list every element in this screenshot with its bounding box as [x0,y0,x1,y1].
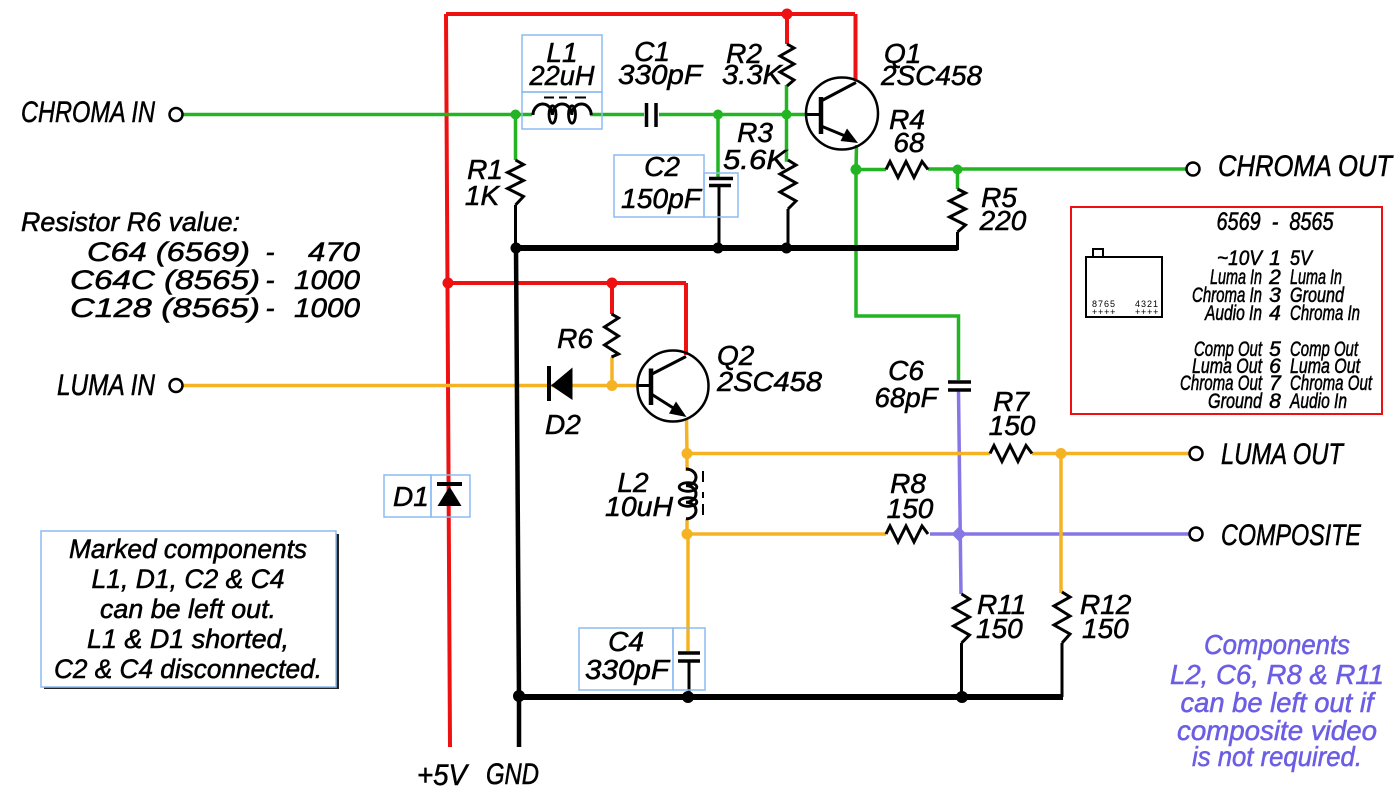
svg-text:6569 - 8565: 6569 - 8565 [1217,208,1334,236]
capacitor C6 plates [948,382,971,390]
svg-text:8: 8 [1269,390,1281,413]
svg-text:LUMA OUT: LUMA OUT [1221,438,1345,471]
wire R1 to ground bus [514,205,517,248]
svg-text:C64 (6569): C64 (6569) [87,237,250,267]
inductor L1 small loops [549,106,556,123]
svg-text:++++: ++++ [1092,307,1116,317]
wire R12 to ground bus corner [1061,643,1064,697]
svg-text:330pF: 330pF [618,59,704,90]
wire emitter junction to R7 [687,452,990,456]
wire +5V mid horizontal [448,281,686,285]
svg-text:3.3K: 3.3K [722,59,783,90]
ground bus upper [514,245,958,251]
svg-text:2SC458: 2SC458 [880,60,982,91]
svg-text:GND: GND [486,758,539,791]
svg-text:10uH: 10uH [605,491,674,522]
svg-text:D1: D1 [393,481,429,512]
wire drop to R1 [514,115,518,161]
wire emitter junction to R4 [856,168,886,172]
junction chroma out/R5 [953,165,963,175]
wire R7 to luma out [1032,452,1190,456]
C4 label box [579,628,673,690]
svg-text:330pF: 330pF [585,654,671,685]
pinout box [1071,207,1382,414]
svg-text:Ground: Ground [1208,390,1263,413]
D1 symbol box [431,475,470,517]
transistor Q2 emitter lead [652,395,678,412]
svg-text:68: 68 [893,127,925,158]
svg-text:D2: D2 [545,409,581,440]
svg-text:can be left out if: can be left out if [1181,687,1377,718]
inductor L1 coil [533,104,591,115]
junction chroma/C2 [713,110,723,120]
svg-text:1000: 1000 [294,293,360,323]
svg-text:R6: R6 [557,323,593,354]
transistor Q2 base bar [649,369,654,406]
wire R6 bottom to luma line [610,357,614,386]
svg-text:1000: 1000 [294,265,360,295]
wire C6 bottom down to R11 [959,391,962,594]
junction ground rail lower [513,690,525,702]
svg-text:-: - [266,293,275,323]
ground vertical rail [516,248,519,697]
svg-text:1K: 1K [465,180,501,211]
svg-text:C4: C4 [608,626,644,657]
transistor Q1 emitter lead [821,126,850,138]
capacitor C2 plates [709,179,733,186]
svg-text:Chroma In: Chroma In [1290,302,1360,325]
resistor R4 [886,162,928,178]
svg-text:L1 & D1 shorted,: L1 & D1 shorted, [87,624,289,654]
svg-text:CHROMA IN: CHROMA IN [21,96,155,129]
junction ground/R3 [781,243,792,254]
terminal LUMA OUT [1190,447,1203,460]
svg-text:is not required.: is not required. [1192,741,1362,772]
transistor Q1 base bar [819,97,824,134]
svg-text:5.6K: 5.6K [723,144,788,175]
inductor L2 core dashes [702,471,704,515]
svg-text:150: 150 [887,493,934,524]
svg-text:+5V: +5V [417,759,470,792]
wire drop to R5 [956,170,960,190]
BLACK-PARTS [170,44,1203,747]
junction +5V rail mid [443,278,454,289]
junction Q2 emitter node [682,448,693,459]
junction +5V/R6 [607,278,618,289]
svg-text:Marked components: Marked components [69,534,307,564]
junction composite diamond [952,527,967,542]
diode D1 cathode bar [437,482,462,486]
svg-text:22uH: 22uH [529,60,596,91]
junction luma/R6/D2 [607,380,618,391]
WIRES-RED [446,14,856,747]
junction L2 bottom node [682,529,693,540]
junction luma out/R12 [1056,448,1067,459]
junction chroma/R2-R3 [782,110,792,120]
svg-text:2SC458: 2SC458 [716,366,822,397]
resistor R11 [954,594,970,643]
wire L2 bottom to junction [685,519,689,534]
transistor Q2 body [638,351,709,422]
terminal COMPOSITE [1190,528,1203,541]
transistor Q2 emitter arrow [669,402,687,418]
svg-text:CHROMA OUT: CHROMA OUT [1218,150,1394,183]
svg-text:150: 150 [989,410,1036,441]
diode D2 cathode bar [547,366,551,401]
svg-text:C2: C2 [644,151,680,182]
wire +5V left vertical rail [446,14,450,747]
WIRES-PURPLE [930,391,1190,594]
junction +5V/R2 [782,9,793,20]
inductor L2 coil [686,469,696,519]
svg-text:LUMA IN: LUMA IN [57,369,155,402]
resistor R3 [780,160,796,209]
transistor Q2 collector lead [652,357,686,375]
WIRES-GREEN [183,85,1187,380]
ground bus lower [517,694,1063,700]
transistor Q1 collector lead [821,83,856,102]
inductor L1 core dashes [544,97,586,99]
inductor L2 small loops [679,483,697,492]
svg-text:150: 150 [976,613,1023,644]
wire L1 to C1 [590,113,644,117]
svg-text:68pF: 68pF [875,382,940,413]
wire Q1 emitter down [854,145,858,170]
wire C1 to Q1 base [659,113,807,117]
transistor Q1 base lead [806,113,819,116]
DIN connector body [1086,257,1162,317]
BOXES [384,35,738,690]
DIN connector notch [1093,249,1103,257]
svg-text:++++: ++++ [1135,307,1159,317]
svg-text:C2 & C4 disconnected.: C2 & C4 disconnected. [54,654,322,684]
L1 label box [522,35,602,92]
wire junction down to C4 [686,534,690,651]
svg-text:L2, C6, R8 & R11: L2, C6, R8 & R11 [1170,659,1384,690]
junction ground/C4 [682,691,694,703]
wire C4 to ground bus [688,661,691,697]
svg-text:Components: Components [1204,629,1350,660]
note box shadow [44,534,339,689]
transistor Q2 base lead [637,384,649,387]
svg-text:Audio In: Audio In [1289,390,1347,413]
junction ground/C2 [713,243,724,254]
wire R5 to ground bus [956,232,959,250]
svg-text:C64C (8565): C64C (8565) [70,265,260,295]
resistor R2 [780,44,794,86]
terminal CHROMA OUT [1187,163,1200,176]
svg-text:-: - [266,237,275,267]
wire drop to C2 [716,115,720,178]
wire R3 to ground bus [787,209,790,248]
transistor Q1 emitter arrow [841,129,859,144]
ground stub below bus [517,697,522,747]
C4 symbol box [673,628,705,690]
svg-text:Resistor R6 value:: Resistor R6 value: [21,207,240,237]
wire R2 bottom to R3 top [787,85,789,160]
wire junction to R8 [687,532,886,536]
wire C2 to ground bus [718,186,721,248]
wire +5V to Q2 collector [684,283,688,355]
wire composite line from R8 to terminal [930,532,1190,536]
junction ground/R11 [956,691,968,703]
wire luma out junction down to R12 [1059,454,1063,594]
diode D2 body [551,368,573,401]
wire luma in to Q2 base [183,384,637,388]
svg-text:470: 470 [308,237,360,267]
C2 label box [614,155,704,217]
wire R11 to ground bus [960,643,963,697]
svg-text:COMPOSITE: COMPOSITE [1221,519,1362,552]
resistor R8 [886,526,928,542]
C2 symbol box [704,173,738,217]
svg-text:can be left out.: can be left out. [100,594,276,624]
svg-text:150: 150 [1082,613,1129,644]
wire Q2 emitter down [685,419,689,454]
svg-text:150pF: 150pF [621,183,703,214]
junction Q1 emitter node [851,164,862,175]
svg-text:220: 220 [979,205,1027,236]
resistor R12 [1054,592,1070,643]
L1 symbol box [522,92,602,129]
D1 label box [384,475,431,517]
svg-text:C128 (8565): C128 (8565) [70,293,260,323]
diode D1 body [438,487,462,507]
wire +5V top horizontal [446,12,855,16]
capacitor C4 plates [678,653,700,661]
wire +5V to Q1 collector [854,14,858,81]
capacitor C1 plates [647,103,657,127]
transistor Q1 body [806,78,878,150]
terminal CHROMA IN [170,108,183,121]
wire emitter junction down and over to C6 [856,170,959,381]
wire R4 to chroma out [928,167,1187,171]
resistor R7 [990,446,1032,462]
svg-text:-: - [266,265,275,295]
svg-text:L1, D1, C2 & C4: L1, D1, C2 & C4 [92,564,285,594]
terminal LUMA IN [170,379,183,392]
junction ground/R1 [511,243,522,254]
WIRES-YELLOW [183,357,1190,651]
junction chroma/R1 [511,110,521,120]
svg-text:Audio In: Audio In [1204,302,1262,325]
svg-text:4: 4 [1269,302,1281,325]
wire +5V drop to R6 [610,283,614,314]
wire +5V drop to R2 [785,14,789,44]
note box [41,531,336,687]
resistor R1 [508,160,524,205]
wire junction to L2 top [685,454,689,472]
wire chroma in to L1 [183,113,532,117]
resistor R6 [605,314,619,357]
resistor R5 [950,189,966,232]
